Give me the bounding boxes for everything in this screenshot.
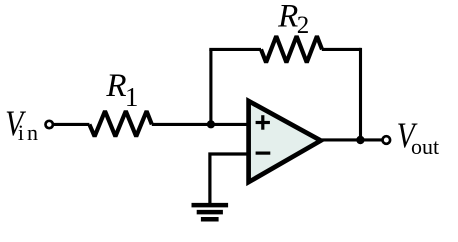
- op-amp plus sign: [256, 115, 270, 130]
- resistor R2: [261, 36, 322, 62]
- ground: [192, 205, 229, 219]
- wire right side down to output node: [359, 48, 362, 140]
- op-amp U1: [249, 101, 321, 182]
- wire inverting input to ground corner: [210, 154, 249, 205]
- wire top-left to R2: [209, 48, 261, 51]
- op-amp minus sign: [256, 152, 271, 155]
- svg-text:out: out: [411, 134, 439, 159]
- terminal Vin circle: [46, 121, 53, 128]
- resistor R1: [89, 111, 151, 136]
- svg-text:in: in: [18, 120, 41, 145]
- wire input from Vin terminal to op-amp noninverting input: [53, 123, 250, 126]
- wire from node A up to feedback branch: [209, 49, 212, 124]
- svg-text:R: R: [277, 0, 298, 35]
- wire R2 to right corner: [322, 48, 361, 51]
- terminal Vout circle: [383, 136, 391, 144]
- svg-text:2: 2: [297, 12, 310, 39]
- wire op-amp output: [322, 138, 382, 141]
- node A junction dot at noninverting input: [207, 120, 215, 128]
- svg-text:R: R: [105, 68, 126, 104]
- node B junction dot at output: [356, 136, 364, 144]
- svg-text:1: 1: [125, 82, 138, 112]
